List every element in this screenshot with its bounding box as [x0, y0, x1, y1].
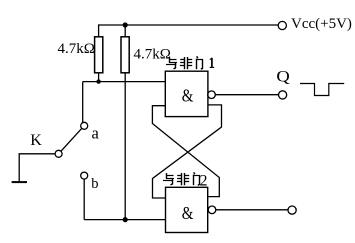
svg-text:b: b [91, 176, 98, 192]
svg-text:&: & [182, 85, 194, 106]
svg-text:4.7kΩ: 4.7kΩ [58, 41, 95, 57]
svg-text:K: K [30, 132, 42, 149]
svg-text:Vcc(+5V): Vcc(+5V) [291, 16, 352, 32]
svg-text:4.7kΩ: 4.7kΩ [134, 46, 171, 62]
svg-text:&: & [182, 203, 194, 224]
svg-text:a: a [92, 123, 100, 142]
svg-text:Q: Q [276, 67, 290, 85]
svg-text:2: 2 [200, 172, 208, 189]
